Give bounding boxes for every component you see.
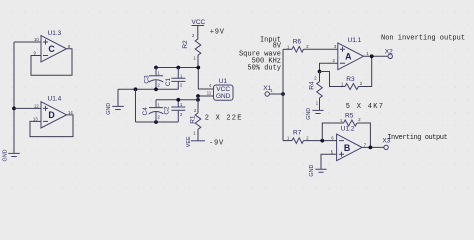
svg-text:R3: R3	[346, 76, 355, 83]
svg-text:VEE: VEE	[186, 136, 192, 147]
op-amp U1.4	[33, 96, 73, 128]
power VEE	[186, 136, 205, 147]
wire D + input	[14, 107, 41, 109]
svg-text:12: 12	[34, 103, 39, 108]
svg-text:Non inverting output: Non inverting output	[381, 34, 465, 42]
svg-text:GND: GND	[106, 103, 112, 115]
svg-text:10: 10	[34, 37, 39, 42]
svg-text:Inverting output: Inverting output	[387, 134, 447, 142]
ground GND mid	[106, 89, 124, 114]
wire R5 to B out	[357, 123, 370, 147]
label input block	[239, 36, 282, 72]
svg-text:VCC: VCC	[192, 19, 206, 26]
wire node to R4	[319, 72, 321, 82]
svg-text:X2: X2	[385, 48, 393, 55]
svg-text:U1.3: U1.3	[48, 30, 62, 37]
wire R3 to A out	[359, 56, 372, 86]
resistor R6	[287, 38, 309, 52]
svg-text:GND: GND	[309, 165, 315, 177]
svg-text:R5: R5	[345, 112, 354, 119]
svg-text:11: 11	[207, 91, 212, 96]
wire input vertical	[282, 49, 284, 140]
wire R7 to B	[304, 140, 337, 142]
svg-text:U1.2: U1.2	[341, 125, 355, 132]
svg-text:14: 14	[68, 110, 73, 115]
capacitor C4	[142, 100, 163, 122]
wire A output	[364, 55, 389, 57]
capacitor C2	[163, 100, 185, 122]
resistor R3	[341, 76, 363, 90]
wire B output	[362, 146, 384, 148]
svg-text:D: D	[48, 110, 54, 120]
junction mid rail	[134, 87, 138, 91]
svg-text:C3: C3	[143, 75, 150, 84]
wire D - input feedback	[30, 115, 73, 137]
resistor R7	[287, 130, 309, 144]
wire R1 to VEE	[197, 129, 199, 141]
svg-text:-9V: -9V	[209, 139, 224, 147]
svg-text:U1: U1	[219, 78, 228, 85]
junction A out	[370, 54, 374, 58]
IC U1 power block	[207, 78, 233, 100]
power VCC	[192, 19, 206, 39]
wire B + to GND	[321, 154, 337, 169]
wire to U1 VCC pin	[198, 68, 213, 90]
wire node up to R5	[322, 123, 343, 141]
svg-text:50% duty: 50% duty	[247, 65, 281, 73]
wire to R7	[283, 140, 292, 142]
resistor R5	[340, 112, 361, 126]
svg-text:GND: GND	[306, 108, 312, 120]
junction B - node	[320, 139, 324, 143]
svg-text:R1: R1	[189, 115, 196, 124]
svg-text:C2: C2	[163, 106, 170, 115]
wire A - node	[320, 63, 338, 71]
svg-text:R2: R2	[182, 40, 189, 49]
wire bottom rail	[136, 121, 179, 123]
svg-text:C4: C4	[142, 107, 149, 116]
wire VEE cap rail	[156, 99, 198, 101]
svg-text:C1: C1	[165, 77, 172, 86]
node GND left rail	[13, 42, 15, 153]
pad X1	[263, 85, 273, 96]
junction B out	[369, 146, 373, 150]
svg-text:R6: R6	[293, 38, 302, 45]
resistor R2	[182, 33, 201, 60]
svg-text:A: A	[345, 52, 352, 62]
wire R2 to rail	[197, 55, 199, 67]
wire link down	[135, 89, 137, 122]
op-amp U1.3	[34, 30, 72, 62]
svg-text:R4: R4	[308, 81, 315, 90]
svg-text:U1.1: U1.1	[348, 37, 362, 44]
junction rail to D	[12, 107, 16, 111]
op-amp U1.2	[331, 125, 367, 160]
svg-text:C: C	[48, 44, 55, 54]
capacitor C3	[143, 68, 163, 90]
ground GND B	[309, 165, 327, 177]
junction VCC rail	[196, 66, 200, 70]
ground GND R4	[306, 98, 324, 120]
wire C - input feedback	[31, 49, 72, 76]
junction bottom rail	[154, 120, 158, 124]
svg-text:5 X 4K7: 5 X 4K7	[346, 103, 385, 111]
pad X2	[385, 48, 393, 58]
ground GND bottom-left	[3, 149, 20, 161]
svg-text:R7: R7	[293, 130, 302, 137]
wire VCC top rail	[156, 67, 198, 69]
junction X1 node	[281, 92, 285, 96]
wire C + input	[14, 41, 41, 43]
op-amp U1.1	[333, 37, 370, 69]
wire R6 to A	[304, 48, 338, 50]
svg-text:2 X 22E: 2 X 22E	[205, 115, 243, 123]
svg-text:GND: GND	[216, 93, 231, 100]
wire to R1	[197, 96, 199, 113]
junction GND pin	[196, 94, 200, 98]
wire node to R3	[320, 72, 346, 87]
pad X3	[382, 138, 390, 150]
resistor R4	[308, 76, 322, 106]
wire to R6	[283, 48, 292, 50]
svg-text:13: 13	[33, 117, 38, 122]
svg-text:B: B	[344, 143, 350, 153]
wire X1 to node	[269, 93, 283, 95]
junction A - node	[318, 70, 322, 74]
capacitor C1	[165, 68, 185, 90]
svg-text:GND: GND	[3, 149, 9, 161]
wire U1 GND pin	[198, 95, 214, 97]
svg-text:U1.4: U1.4	[48, 96, 62, 103]
wire GND mid rail	[118, 88, 178, 90]
svg-text:+9V: +9V	[210, 28, 225, 36]
resistor R1	[189, 108, 200, 136]
